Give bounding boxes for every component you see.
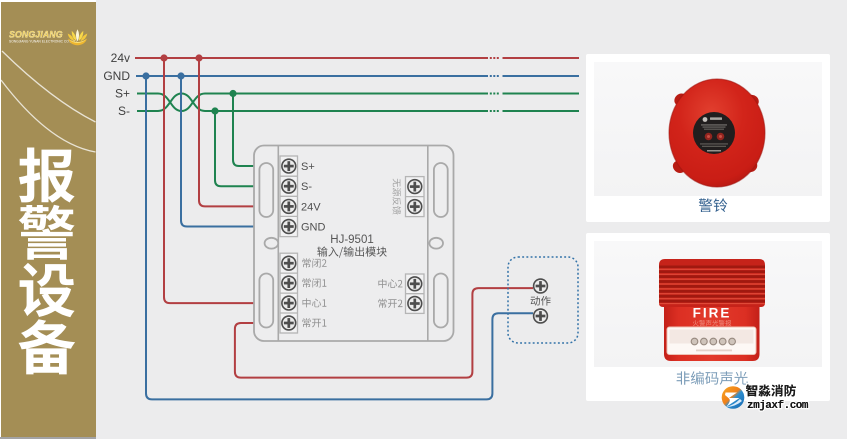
strobe translucent window (667, 327, 756, 355)
wire S- bus (green horizontal with twisted-pair crossover) (137, 94, 579, 112)
svg-text:24V: 24V (301, 201, 321, 213)
wire S+ bus (green horizontal with twisted-pair crossover) (137, 94, 579, 112)
terminal NC2 screw (282, 256, 296, 270)
svg-text:SONGJIANG YUNAN ELECTRONIC CO.: SONGJIANG YUNAN ELECTRONIC CO.,LTD (9, 40, 77, 44)
decorative arc 2 (1, 80, 96, 152)
wire 24v bus (red horizontal) (135, 57, 579, 59)
alarm bell center black label (693, 112, 735, 154)
product card 1 (alarm bell) (586, 54, 830, 222)
terminal S+ screw (282, 159, 296, 173)
terminal COM1 screw (282, 296, 296, 310)
wire: blue run from GND around bottom to action box lower screw (146, 76, 533, 399)
svg-text:GND: GND (301, 222, 326, 234)
zmjaxf logo circle (722, 386, 745, 409)
product card 2 (strobe sounder) (586, 233, 830, 401)
strobe sounder grille ribs (659, 267, 765, 304)
pin label 常开1 (NO1) (302, 318, 326, 327)
svg-text:zmjaxf.com: zmjaxf.com (747, 400, 809, 412)
terminal block lower-left (NC2,NC1,COM1,NO1) (280, 253, 298, 333)
alarm bell label red seals (705, 133, 713, 141)
module ear boss right (429, 238, 443, 249)
card 2 caption 非编码声光 (non-coded sounder strobe) (586, 367, 830, 391)
wire: red drop from 24v to module 24V terminal (199, 58, 254, 206)
action device box (dashed) (508, 257, 578, 343)
node: junction dot on GND at x=181 (177, 72, 184, 79)
zmjaxf logo chinese 智淼消防 (746, 384, 796, 396)
action box screw terminal upper (534, 279, 548, 293)
SONGJIANG lotus flower icon (68, 29, 88, 45)
terminal feedback screw 1 (408, 180, 422, 194)
node: junction dot on S+ at x=233 (229, 90, 236, 97)
node: junction dot on 24v at x=164 (160, 54, 167, 61)
svg-text:S+: S+ (115, 87, 130, 101)
zmjaxf watermark logo (712, 378, 847, 418)
terminal NC1 screw (282, 276, 296, 290)
wire: green drop from S+ dot to module S+ terminal (233, 94, 254, 167)
module inner flange line left (277, 146, 279, 341)
terminal block upper-left (S+,S-,24V,GND) (280, 156, 298, 237)
sidebar bottom shadow strip (0, 437, 96, 439)
sidebar vertical title 报警设备 (alarm equipment) (19, 148, 75, 203)
svg-text:HJ-9501: HJ-9501 (330, 234, 373, 246)
terminal S- screw (282, 179, 296, 193)
module inner flange line right (427, 146, 429, 341)
terminal NO2 screw (408, 297, 422, 311)
module mounting slot top-right (434, 163, 448, 217)
svg-text:SONGJIANG: SONGJIANG (9, 30, 63, 40)
card 1 caption 警铃 (alarm bell) (586, 196, 830, 222)
strobe LED studs (593, 240, 595, 242)
strobe small red caption above window (693, 320, 732, 326)
node: junction dot on 24v at x=199 (195, 54, 202, 61)
pin label 常闭1 (NC1) (302, 278, 326, 287)
pin label 无源反馈 (passive feedback, vertical) (393, 179, 402, 215)
module mounting slot bottom-right (434, 274, 448, 328)
alarm bell mounting lugs (670, 91, 761, 176)
svg-text:S+: S+ (301, 161, 315, 173)
wire: red drop from 24v to module COM1 terminal (164, 58, 254, 303)
alarm bell red dome (669, 79, 765, 187)
terminal block lower-right (COM2,NO2) (406, 274, 425, 313)
wire: blue drop from GND to module GND terminal (181, 76, 254, 227)
terminal block upper-right (passive feedback) (406, 177, 425, 217)
module mounting slot top-left (259, 163, 273, 217)
pin label 中心2 (COM2) (378, 279, 402, 288)
module U1 HJ-9501 input/output module body (254, 146, 454, 342)
svg-text:S-: S- (118, 104, 130, 118)
terminal 24V screw (282, 200, 296, 214)
strobe sounder louvered top (659, 259, 765, 307)
svg-text:FIRE: FIRE (693, 306, 732, 321)
wire GND bus (blue horizontal) (136, 75, 579, 77)
node: junction dot on GND at x=146 (142, 72, 149, 79)
decorative arc 1 (2, 51, 96, 122)
module mounting slot bottom-left (259, 274, 273, 328)
wire: red run from NO1 terminal around bottom to action box upper screw (235, 288, 533, 378)
terminal NO1 screw (282, 316, 296, 330)
wire: green drop from S- dot to module S- terminal (215, 111, 254, 186)
pin label 中心1 (COM1) (303, 298, 327, 307)
svg-text:S-: S- (301, 181, 312, 193)
terminal GND screw (282, 220, 296, 234)
pin label 常闭2 (NC2) (302, 258, 326, 267)
pin label 常开2 (NO2) (378, 299, 402, 308)
terminal feedback screw 2 (408, 200, 422, 214)
module title 输入/输出模块 (317, 246, 387, 257)
terminal COM2 screw (408, 277, 422, 291)
svg-text:24v: 24v (111, 51, 130, 65)
action box screw terminal lower (534, 309, 548, 323)
strobe sounder red body lower (664, 296, 760, 361)
node: junction dot on S- at x=215 (211, 107, 218, 114)
sidebar gold banner (0, 0, 96, 439)
label 动作 (action) (531, 296, 551, 306)
module ear boss left (265, 238, 279, 249)
